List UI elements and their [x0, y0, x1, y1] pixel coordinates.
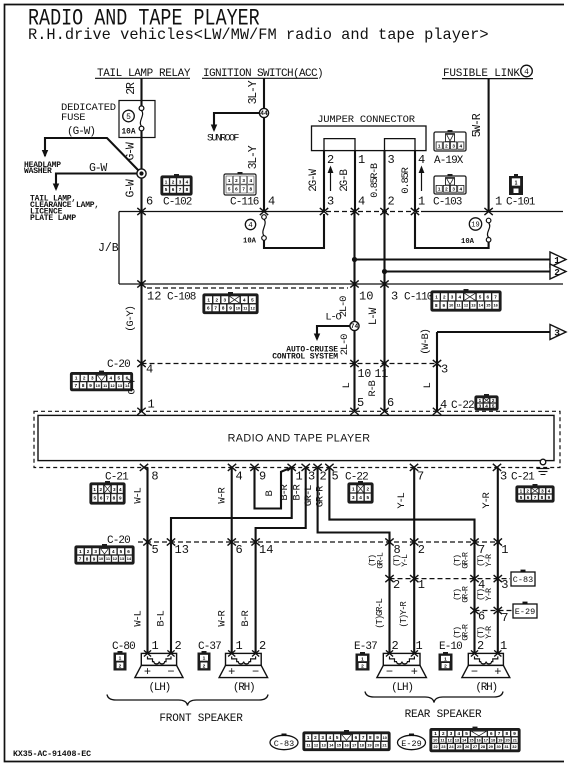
- svg-text:3: 3: [91, 376, 94, 381]
- svg-text:(T)Y-R: (T)Y-R: [399, 601, 409, 628]
- svg-text:3: 3: [224, 297, 227, 302]
- svg-text:B-R: B-R: [279, 483, 291, 500]
- svg-text:GR-L: GR-L: [376, 552, 386, 569]
- svg-text:2: 2: [314, 735, 317, 740]
- svg-text:(T)GR-L: (T)GR-L: [375, 598, 385, 628]
- svg-text:7: 7: [498, 731, 501, 736]
- svg-text:2: 2: [215, 297, 218, 302]
- svg-text:R-B: R-B: [367, 380, 379, 396]
- svg-text:4: 4: [112, 549, 115, 554]
- svg-text:3: 3: [500, 470, 507, 484]
- svg-text:10: 10: [359, 290, 373, 304]
- svg-text:9: 9: [442, 303, 445, 308]
- svg-text:11: 11: [375, 368, 389, 381]
- svg-text:5: 5: [120, 549, 123, 554]
- svg-text:GR-L: GR-L: [303, 485, 315, 506]
- svg-text:1: 1: [435, 295, 438, 300]
- svg-text:RADIO AND TAPE PLAYER: RADIO AND TAPE PLAYER: [228, 433, 371, 445]
- svg-text:G-W: G-W: [125, 179, 138, 197]
- svg-text:SUNROOF: SUNROOF: [207, 134, 239, 145]
- svg-text:3: 3: [388, 153, 395, 167]
- svg-text:8: 8: [435, 303, 438, 308]
- svg-text:3L-Y: 3L-Y: [247, 145, 260, 169]
- svg-text:4: 4: [485, 403, 488, 408]
- svg-text:2: 2: [87, 549, 90, 554]
- svg-text:(G-Y): (G-Y): [125, 306, 137, 332]
- svg-text:2: 2: [366, 487, 369, 492]
- svg-text:10A: 10A: [122, 129, 136, 137]
- svg-text:A-19X: A-19X: [434, 155, 464, 167]
- svg-text:1: 1: [434, 731, 437, 736]
- svg-text:2: 2: [445, 187, 448, 192]
- svg-text:7: 7: [478, 543, 485, 557]
- svg-text:W-L: W-L: [133, 610, 145, 626]
- svg-text:1: 1: [119, 656, 122, 662]
- svg-text:FRONT SPEAKER: FRONT SPEAKER: [159, 713, 243, 725]
- svg-text:2: 2: [443, 295, 446, 300]
- svg-text:8: 8: [186, 187, 189, 192]
- svg-text:10: 10: [236, 305, 240, 310]
- svg-text:3: 3: [479, 403, 482, 408]
- svg-text:9: 9: [93, 556, 96, 561]
- svg-text:R.H.drive vehicles<LW/MW/FM ra: R.H.drive vehicles<LW/MW/FM radio and ta…: [28, 26, 489, 44]
- svg-text:9: 9: [513, 731, 516, 736]
- svg-text:E-37: E-37: [354, 641, 377, 653]
- svg-text:4: 4: [109, 376, 112, 381]
- svg-text:5: 5: [492, 403, 495, 408]
- svg-text:PLATE LAMP: PLATE LAMP: [30, 214, 76, 223]
- svg-text:8: 8: [86, 556, 89, 561]
- svg-text:C-21: C-21: [511, 472, 535, 484]
- svg-text:3: 3: [94, 549, 97, 554]
- svg-text:8: 8: [151, 470, 158, 484]
- svg-text:3L-Y: 3L-Y: [247, 80, 260, 104]
- svg-text:10A: 10A: [243, 238, 257, 246]
- svg-text:2: 2: [554, 267, 560, 278]
- svg-text:4: 4: [186, 179, 189, 184]
- svg-text:C-110: C-110: [404, 292, 433, 304]
- svg-text:L: L: [341, 383, 353, 389]
- svg-text:2: 2: [119, 663, 122, 669]
- svg-text:9: 9: [89, 383, 92, 388]
- svg-text:3: 3: [321, 735, 324, 740]
- svg-text:17: 17: [484, 738, 488, 743]
- svg-text:5: 5: [228, 187, 231, 192]
- svg-text:1: 1: [515, 181, 518, 187]
- svg-text:4: 4: [457, 731, 460, 736]
- svg-text:1: 1: [148, 398, 155, 412]
- svg-text:L-O: L-O: [325, 312, 341, 324]
- svg-text:20: 20: [375, 743, 379, 748]
- svg-text:−: −: [471, 665, 478, 679]
- svg-text:1: 1: [165, 179, 168, 184]
- svg-text:5: 5: [465, 731, 468, 736]
- svg-text:C-103: C-103: [433, 197, 462, 209]
- svg-text:KX35-AC-91408-EC: KX35-AC-91408-EC: [13, 750, 91, 759]
- svg-text:2: 2: [175, 639, 182, 653]
- svg-text:8: 8: [222, 306, 225, 311]
- svg-text:2: 2: [99, 487, 102, 492]
- svg-text:4: 4: [418, 153, 425, 167]
- svg-text:4: 4: [119, 487, 122, 492]
- svg-text:7: 7: [179, 187, 182, 192]
- svg-text:1: 1: [438, 143, 441, 148]
- svg-text:8: 8: [505, 731, 508, 736]
- svg-text:2: 2: [83, 376, 86, 381]
- svg-text:L: L: [422, 383, 434, 389]
- svg-text:1: 1: [75, 376, 78, 381]
- svg-text:6: 6: [490, 731, 493, 736]
- svg-text:7: 7: [214, 306, 217, 311]
- svg-text:6: 6: [146, 195, 153, 209]
- svg-text:7: 7: [74, 383, 77, 388]
- svg-text:4: 4: [329, 735, 332, 740]
- svg-text:C-116: C-116: [230, 197, 259, 209]
- svg-text:7: 7: [501, 611, 508, 625]
- svg-text:4: 4: [460, 187, 463, 192]
- svg-text:1: 1: [236, 639, 243, 653]
- svg-text:7: 7: [106, 496, 109, 501]
- svg-text:5: 5: [336, 735, 339, 740]
- svg-text:13: 13: [175, 543, 189, 557]
- svg-text:3: 3: [179, 179, 182, 184]
- svg-text:2: 2: [388, 195, 395, 209]
- svg-text:2: 2: [418, 543, 425, 557]
- svg-text:1: 1: [228, 178, 231, 183]
- svg-text:44: 44: [260, 110, 268, 117]
- svg-text:5: 5: [251, 297, 254, 302]
- svg-text:GR-R: GR-R: [461, 552, 471, 569]
- svg-text:CONTROL SYSTEM: CONTROL SYSTEM: [272, 353, 338, 362]
- svg-text:1: 1: [203, 656, 206, 662]
- svg-text:74: 74: [351, 323, 359, 330]
- svg-text:2: 2: [327, 153, 334, 167]
- svg-text:10: 10: [96, 383, 100, 388]
- svg-text:3: 3: [541, 489, 544, 494]
- svg-text:6: 6: [486, 295, 489, 300]
- svg-text:8: 8: [394, 543, 401, 557]
- svg-text:5: 5: [520, 495, 523, 500]
- svg-text:1: 1: [495, 195, 502, 209]
- svg-text:6: 6: [355, 735, 358, 740]
- svg-text:2G-W: 2G-W: [308, 169, 320, 192]
- svg-text:6: 6: [100, 496, 103, 501]
- svg-text:3: 3: [450, 731, 453, 736]
- svg-text:Y-L: Y-L: [396, 492, 408, 508]
- svg-text:3: 3: [501, 578, 508, 592]
- svg-text:C-83: C-83: [274, 739, 294, 749]
- svg-text:3: 3: [113, 487, 116, 492]
- svg-text:4: 4: [248, 222, 253, 230]
- svg-text:6: 6: [236, 543, 243, 557]
- svg-text:7: 7: [242, 187, 245, 192]
- svg-text:C-102: C-102: [163, 197, 192, 209]
- svg-text:GR-R: GR-R: [461, 624, 471, 641]
- svg-text:E-29: E-29: [401, 739, 421, 749]
- svg-text:C-101: C-101: [506, 197, 536, 209]
- svg-text:3: 3: [441, 363, 448, 377]
- svg-text:1: 1: [79, 549, 82, 554]
- svg-text:2: 2: [259, 639, 266, 653]
- svg-text:4: 4: [524, 68, 529, 77]
- svg-text:1: 1: [501, 543, 508, 557]
- svg-text:1: 1: [479, 398, 482, 403]
- svg-text:Y-L: Y-L: [400, 554, 410, 567]
- svg-text:5: 5: [126, 113, 131, 122]
- svg-text:2: 2: [203, 663, 206, 669]
- svg-text:2: 2: [235, 178, 238, 183]
- svg-text:3: 3: [242, 178, 245, 183]
- svg-text:−: −: [386, 665, 393, 679]
- svg-text:REAR SPEAKER: REAR SPEAKER: [405, 709, 482, 721]
- svg-text:4: 4: [250, 178, 253, 183]
- svg-text:6: 6: [478, 610, 485, 624]
- svg-text:GR-R: GR-R: [461, 586, 471, 603]
- svg-text:9: 9: [119, 496, 122, 501]
- svg-text:1: 1: [444, 656, 447, 662]
- svg-text:7: 7: [534, 495, 537, 500]
- svg-text:(RH): (RH): [233, 682, 255, 694]
- svg-text:9: 9: [376, 735, 379, 740]
- svg-text:2: 2: [361, 664, 364, 670]
- svg-text:3: 3: [451, 295, 454, 300]
- svg-text:2: 2: [320, 470, 327, 484]
- svg-text:Y-R: Y-R: [484, 626, 494, 639]
- svg-text:1: 1: [358, 153, 365, 167]
- svg-text:G-Y: G-Y: [127, 377, 139, 394]
- svg-text:3: 3: [452, 143, 455, 148]
- svg-text:1: 1: [554, 255, 560, 266]
- svg-text:C-80: C-80: [112, 641, 135, 653]
- svg-text:C-37: C-37: [198, 641, 221, 653]
- svg-text:W-L: W-L: [133, 487, 145, 503]
- svg-text:(RH): (RH): [475, 682, 497, 694]
- svg-text:4: 4: [459, 295, 462, 300]
- svg-text:B-L: B-L: [156, 610, 168, 626]
- svg-text:2G-B: 2G-B: [339, 169, 351, 192]
- svg-text:1: 1: [152, 639, 159, 653]
- svg-text:10A: 10A: [461, 238, 475, 246]
- svg-text:Y-R: Y-R: [484, 588, 494, 601]
- svg-text:5W-R: 5W-R: [471, 113, 484, 137]
- svg-text:9: 9: [259, 470, 266, 484]
- svg-text:+: +: [411, 665, 418, 679]
- svg-text:B-R: B-R: [292, 483, 304, 500]
- svg-text:8: 8: [250, 187, 253, 192]
- svg-text:B: B: [264, 491, 276, 497]
- svg-text:3: 3: [327, 195, 334, 209]
- svg-text:B-R: B-R: [240, 609, 252, 626]
- svg-text:3: 3: [308, 470, 315, 484]
- svg-text:8: 8: [113, 496, 116, 501]
- svg-text:1: 1: [352, 487, 355, 492]
- svg-text:1: 1: [207, 297, 210, 302]
- svg-text:(LH): (LH): [391, 682, 413, 694]
- svg-text:Y-R: Y-R: [484, 554, 494, 567]
- svg-text:+: +: [494, 665, 501, 679]
- svg-text:10: 10: [433, 738, 437, 743]
- svg-text:7: 7: [494, 295, 497, 300]
- svg-text:4: 4: [268, 195, 275, 209]
- svg-text:E-10: E-10: [439, 641, 462, 653]
- svg-text:0.85R: 0.85R: [400, 166, 412, 193]
- svg-text:1: 1: [438, 187, 441, 192]
- svg-text:2: 2: [442, 731, 445, 736]
- svg-text:+: +: [228, 665, 235, 679]
- svg-text:9: 9: [229, 306, 232, 311]
- svg-text:4: 4: [440, 398, 447, 412]
- svg-text:C-22: C-22: [451, 400, 474, 412]
- svg-text:5: 5: [332, 470, 339, 484]
- svg-text:C-22: C-22: [345, 472, 368, 484]
- svg-text:C-108: C-108: [167, 292, 196, 304]
- svg-text:2L-0: 2L-0: [339, 334, 351, 355]
- svg-text:(G-W): (G-W): [67, 126, 95, 138]
- svg-text:10: 10: [99, 556, 103, 561]
- svg-text:4: 4: [460, 143, 463, 148]
- svg-text:6: 6: [235, 187, 238, 192]
- svg-text:4: 4: [243, 297, 246, 302]
- svg-text:W-R: W-R: [217, 486, 229, 503]
- svg-text:1: 1: [307, 735, 310, 740]
- svg-text:7: 7: [79, 556, 82, 561]
- svg-text:2: 2: [526, 489, 529, 494]
- svg-text:4: 4: [236, 470, 243, 484]
- svg-text:1: 1: [93, 487, 96, 492]
- svg-text:5: 5: [93, 496, 96, 501]
- svg-text:2: 2: [445, 143, 448, 148]
- svg-text:GR-R: GR-R: [315, 485, 327, 507]
- svg-text:J/B: J/B: [98, 242, 119, 255]
- svg-text:8: 8: [82, 383, 85, 388]
- svg-text:1: 1: [418, 578, 425, 592]
- svg-text:4: 4: [359, 495, 362, 500]
- svg-text:4: 4: [358, 195, 365, 209]
- svg-text:4: 4: [548, 489, 551, 494]
- svg-text:JUMPER CONNECTOR: JUMPER CONNECTOR: [317, 114, 416, 126]
- svg-text:FUSE: FUSE: [61, 112, 85, 124]
- svg-text:5: 5: [366, 495, 369, 500]
- svg-text:30: 30: [497, 744, 501, 749]
- svg-text:9: 9: [548, 495, 551, 500]
- svg-text:12: 12: [147, 290, 161, 304]
- svg-text:20: 20: [505, 738, 509, 743]
- svg-text:1: 1: [418, 195, 425, 209]
- svg-text:8: 8: [541, 495, 544, 500]
- svg-text:19: 19: [471, 222, 479, 230]
- svg-text:17: 17: [352, 743, 356, 748]
- svg-text:1: 1: [520, 489, 523, 494]
- svg-text:0.85R-B: 0.85R-B: [370, 163, 381, 198]
- svg-text:5: 5: [165, 187, 168, 192]
- svg-text:(LH): (LH): [148, 682, 170, 694]
- svg-text:1: 1: [296, 470, 303, 484]
- svg-text:−: −: [167, 665, 174, 679]
- svg-text:3: 3: [352, 495, 355, 500]
- svg-text:2: 2: [393, 578, 400, 592]
- svg-text:2R: 2R: [125, 82, 138, 95]
- svg-text:2: 2: [492, 398, 495, 403]
- svg-text:1: 1: [361, 656, 364, 662]
- svg-text:2: 2: [444, 664, 447, 670]
- svg-text:5: 5: [118, 376, 121, 381]
- svg-text:8: 8: [369, 735, 372, 740]
- svg-text:10: 10: [358, 368, 372, 381]
- svg-text:6: 6: [127, 549, 130, 554]
- svg-text:2: 2: [172, 179, 175, 184]
- svg-text:E-29: E-29: [515, 607, 535, 617]
- svg-text:3: 3: [554, 327, 560, 338]
- svg-text:−: −: [252, 665, 259, 679]
- svg-text:3: 3: [391, 290, 398, 304]
- svg-text:6: 6: [527, 495, 530, 500]
- svg-text:C-20: C-20: [107, 359, 130, 371]
- svg-text:(W-B): (W-B): [420, 329, 432, 355]
- svg-text:7: 7: [417, 470, 424, 484]
- svg-text:Y-R: Y-R: [481, 491, 493, 508]
- svg-text:+: +: [144, 665, 151, 679]
- svg-text:6: 6: [207, 306, 210, 311]
- svg-text:W-R: W-R: [217, 609, 229, 626]
- svg-text:10: 10: [383, 735, 387, 740]
- svg-text:27: 27: [473, 744, 477, 749]
- svg-text:3: 3: [452, 187, 455, 192]
- svg-text:L-W: L-W: [368, 307, 380, 325]
- svg-text:5: 5: [152, 543, 159, 557]
- svg-text:C-20: C-20: [107, 535, 130, 547]
- svg-text:7: 7: [362, 735, 365, 740]
- svg-text:WASHER: WASHER: [24, 167, 52, 176]
- svg-text:G-W: G-W: [89, 162, 107, 175]
- svg-text:5: 5: [479, 295, 482, 300]
- svg-text:4: 4: [146, 363, 153, 377]
- svg-text:10: 10: [449, 303, 453, 308]
- svg-text:6: 6: [172, 187, 175, 192]
- svg-text:C-83: C-83: [513, 575, 533, 585]
- svg-text:14: 14: [259, 543, 273, 557]
